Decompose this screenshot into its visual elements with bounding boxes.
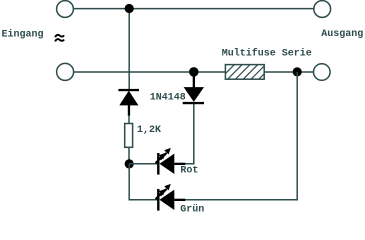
- wire red LED to diode D2: [185, 104, 194, 164]
- svg-text:1,2K: 1,2K: [137, 125, 161, 136]
- LED Gruen arrow 1: [160, 184, 171, 196]
- junction fuse left: [189, 67, 199, 77]
- junction top rail: [125, 4, 134, 13]
- terminal circle input top: [57, 1, 74, 18]
- resistor 1,2K body: [125, 124, 133, 148]
- wire bottom rail: [74, 71, 314, 73]
- diode D1 anode stub: [128, 105, 130, 116]
- LED Gruen cathode bar: [157, 189, 159, 211]
- wire top rail: [73, 8, 313, 10]
- svg-text:Eingang: Eingang: [2, 29, 44, 41]
- junction fuse right: [293, 67, 302, 76]
- LED Rot arrow 2: [156, 153, 166, 163]
- svg-text:Grün: Grün: [180, 204, 204, 216]
- wire left vertical from top rail: [128, 9, 130, 89]
- wire resistor to junction: [128, 147, 130, 164]
- LED Gruen arrow 2: [156, 189, 166, 199]
- LED Rot triangle: [160, 154, 175, 174]
- diode D2 triangle: [184, 87, 204, 102]
- terminal circle output bottom: [314, 64, 331, 81]
- LED Rot cathode bar: [157, 153, 159, 175]
- fuse body: [225, 65, 264, 80]
- LED Rot anode stub: [174, 163, 185, 165]
- diode D2 anode stub: [193, 74, 195, 88]
- wire green LED to fuse junction: [185, 72, 297, 200]
- svg-text:Multifuse Serie: Multifuse Serie: [222, 48, 312, 60]
- LED Rot arrow 1: [160, 148, 171, 160]
- fuse hatching: [218, 63, 275, 81]
- terminal circle output top: [314, 1, 331, 18]
- svg-text:Ausgang: Ausgang: [321, 29, 363, 40]
- wire junction to red LED: [129, 163, 158, 165]
- LED Gruen anode stub: [174, 199, 185, 201]
- svg-text:Rot: Rot: [180, 166, 198, 177]
- diode D1 1N4148 cathode bar: [118, 89, 139, 91]
- svg-text:1N4148: 1N4148: [150, 93, 186, 104]
- terminal circle input bottom: [57, 63, 74, 80]
- diode D2 cathode bar: [183, 102, 204, 104]
- AC symbol: [55, 35, 64, 42]
- junction LED branch: [125, 159, 134, 168]
- wire diode to resistor: [128, 115, 130, 123]
- diode D1 triangle: [119, 91, 138, 106]
- LED Gruen triangle: [160, 190, 175, 210]
- wire junction down to green LED row: [129, 164, 158, 200]
